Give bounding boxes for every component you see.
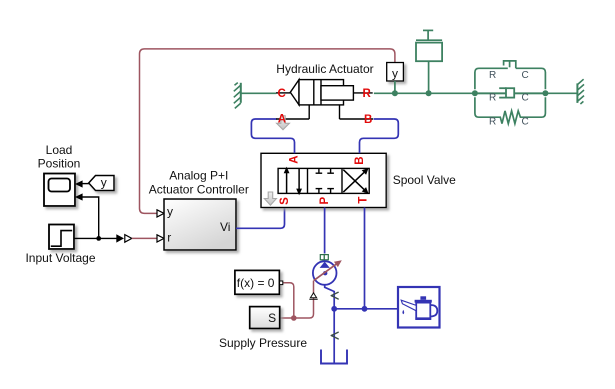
wire branch to scope input 2 [82, 197, 98, 238]
wire junction up to pump [294, 281, 314, 318]
wire sensor to main line [394, 81, 396, 93]
wire wall to actuator C [241, 92, 276, 94]
From tag y [89, 175, 114, 190]
junction tank node [331, 306, 337, 312]
wire actuator B to valve B [360, 119, 399, 153]
valve port label T [357, 197, 369, 204]
pump shaft icon [320, 255, 328, 260]
wire valve T down [364, 208, 366, 309]
svg-text:y: y [392, 67, 398, 81]
svg-text:C: C [278, 88, 286, 100]
mechanical reference wall right [577, 79, 584, 104]
junction supply node [291, 315, 297, 321]
svg-text:Position: Position [38, 157, 81, 171]
valve center cell closed ports [316, 168, 334, 193]
valve port label B [354, 156, 366, 164]
pump variable displacement arrow [314, 260, 342, 280]
junction spring-damper right node [542, 90, 548, 96]
valve port label S [279, 197, 291, 205]
position sensor block y [387, 63, 404, 82]
wire valve P to pump [324, 208, 326, 254]
svg-text:C: C [522, 117, 529, 128]
solver block f(x)=0 [235, 270, 283, 294]
valve port label P [319, 197, 331, 205]
svg-text:A: A [289, 155, 301, 163]
hydraulic fluid block (oil can) [398, 287, 440, 328]
svg-text:Hydraulic Actuator: Hydraulic Actuator [276, 62, 373, 76]
wire S block to junction [280, 317, 294, 319]
svg-text:Analog P+I: Analog P+I [169, 168, 228, 182]
actuator port label A [278, 113, 286, 125]
svg-text:Spool Valve: Spool Valve [393, 173, 456, 187]
controller input triangle r [157, 235, 164, 242]
simulink arrowhead [116, 234, 124, 242]
step source Input Voltage [49, 225, 74, 250]
junction branch dot [96, 236, 101, 241]
svg-text:y: y [101, 175, 107, 189]
svg-text:R: R [489, 93, 496, 104]
svg-text:Supply Pressure: Supply Pressure [219, 336, 307, 350]
damper label R [489, 93, 496, 104]
damper label C [522, 93, 529, 104]
scope Load Position [44, 174, 75, 207]
svg-text:Load: Load [46, 143, 73, 157]
actuator port A gray arrow [277, 116, 290, 130]
label Analog P+I Actuator Controller [149, 168, 249, 196]
wire Vi to valve S port [236, 208, 285, 229]
actuator port label R [363, 88, 372, 100]
valve port label A [289, 155, 301, 163]
damper branch [478, 88, 543, 97]
valve icon body [278, 168, 369, 193]
svg-text:Actuator Controller: Actuator Controller [149, 183, 249, 197]
mass block [416, 30, 442, 93]
junction mass node [426, 90, 432, 96]
svg-text:f(x) = 0: f(x) = 0 [237, 276, 275, 290]
svg-text:S: S [279, 197, 291, 205]
spring label R [489, 117, 496, 128]
pipe marker lower [331, 332, 338, 339]
wire actuator R to wall right [374, 92, 578, 94]
spool valve block [261, 153, 386, 207]
svg-text:R: R [489, 70, 496, 81]
actuator port label B [364, 114, 372, 126]
junction spring-damper left node [472, 90, 478, 96]
hydraulic actuator cylinder [276, 80, 373, 119]
physical signal wire loop y feedback [140, 49, 395, 214]
svg-text:B: B [364, 114, 372, 126]
scope input port arrow 2 [75, 193, 83, 200]
svg-text:R: R [489, 117, 496, 128]
svg-text:P: P [319, 197, 331, 205]
svg-text:R: R [363, 88, 372, 100]
label Load Position [38, 143, 81, 171]
wire to oil block [334, 308, 398, 310]
wire actuator A to valve A [251, 119, 294, 153]
physical signal wire supply to pump [283, 283, 294, 318]
hard stop label R [489, 70, 496, 81]
supply pressure source block S [250, 307, 280, 329]
hard stop branch [475, 61, 546, 89]
label Supply Pressure [219, 336, 307, 350]
svg-text:Input Voltage: Input Voltage [25, 251, 95, 265]
wire from tag to scope [82, 183, 89, 185]
svg-text:y: y [167, 204, 173, 218]
svg-text:S: S [268, 311, 276, 325]
pump reference marker [309, 293, 317, 300]
label Spool Valve [393, 173, 456, 187]
svg-text:C: C [522, 70, 529, 81]
mechanical reference wall left [234, 83, 241, 109]
junction sensor node [392, 90, 398, 96]
svg-text:Vi: Vi [220, 220, 230, 234]
label Hydraulic Actuator [276, 62, 373, 76]
valve left cell arrows [284, 167, 302, 196]
svg-text:C: C [522, 93, 529, 104]
physical signal wire to r port [132, 237, 157, 239]
wire pump outlet down [325, 285, 335, 364]
junction T node [362, 306, 368, 312]
valve PS input gray arrow [264, 192, 276, 205]
spring branch [475, 97, 546, 123]
tank symbol [321, 350, 347, 364]
svg-text:T: T [357, 197, 369, 204]
pipe marker upper [331, 292, 338, 299]
spring label C [522, 117, 529, 128]
wire step output [74, 237, 117, 239]
PS converter hollow triangle [125, 235, 132, 243]
controller input triangle y [157, 210, 164, 217]
actuator port label C [278, 88, 286, 100]
label Input Voltage [25, 251, 95, 265]
svg-text:A: A [278, 113, 286, 125]
hard stop label C [522, 70, 529, 81]
scope input port arrow 1 [75, 180, 83, 187]
pump circle [313, 261, 337, 285]
valve right cell crossed arrows [343, 168, 368, 194]
subsystem Analog P+I Actuator Controller [164, 199, 236, 250]
svg-text:r: r [167, 230, 171, 244]
svg-text:B: B [354, 156, 366, 164]
